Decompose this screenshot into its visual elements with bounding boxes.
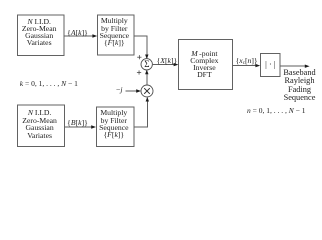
label: IDFT box line 2 <box>190 58 218 66</box>
summer sigma symbol <box>144 61 149 69</box>
annotation: k index range <box>20 80 78 88</box>
label: box1 line 3 <box>25 32 53 40</box>
label: IDFT box line 1 <box>191 51 217 59</box>
wire: arrow -j into multiplier <box>125 90 137 92</box>
label: box4 line 3 <box>99 124 128 132</box>
label: box3 line 2 <box>22 117 57 125</box>
gain label: -j <box>116 87 122 95</box>
plus sign upper-left of summer <box>137 55 141 59</box>
wire: output arrow from magnitude box <box>280 65 305 67</box>
label: box1 line 4 <box>27 39 52 47</box>
label: box2 line 3 <box>100 32 129 40</box>
label: box4 line 4 <box>103 131 124 139</box>
label: box2 line 2 <box>101 25 127 33</box>
box: magnitude |.| <box>261 54 281 77</box>
label: box4 line 2 <box>101 117 127 125</box>
label: box2 line 1 <box>101 18 128 26</box>
node label: {xc[n]} <box>236 57 258 65</box>
output label line 2 <box>285 78 315 86</box>
label: box3 line 1 <box>28 109 52 117</box>
output label line 3 <box>288 86 311 94</box>
multiplier circle with X <box>141 85 153 97</box>
wire: bottom multiplier box to multiplier circle (right then up) <box>134 101 148 127</box>
label: box3 line 3 <box>26 124 54 132</box>
label: box3 line 4 <box>27 132 52 140</box>
label: IDFT box line 3 <box>193 65 216 73</box>
box: bottom N I.I.D. Gaussian variates source <box>18 105 65 147</box>
label: box1 line 1 <box>27 18 51 26</box>
label: box1 line 2 <box>22 25 57 33</box>
summer circle with sigma <box>141 59 152 70</box>
box: top N I.I.D. Gaussian variates source <box>18 15 64 55</box>
label: box4 line 1 <box>100 109 127 117</box>
wire: arrow {A[k]} top source to top multiplier <box>64 35 93 37</box>
label: box2 line 4 <box>104 39 125 47</box>
wire: arrow {xc[n]} IDFT box to magnitude box <box>233 65 257 67</box>
box: M-point Complex Inverse DFT <box>179 40 233 90</box>
node label: {B[k]} <box>67 119 88 127</box>
wire: arrow {X[k]} summer to IDFT box <box>152 64 175 66</box>
output label line 1 <box>283 69 315 77</box>
node label: {X[k]} <box>157 57 178 65</box>
label: IDFT box line 4 <box>197 72 212 80</box>
box: bottom Multiply by Filter Sequence <box>96 107 134 147</box>
node label: {A[k]} <box>67 29 88 37</box>
box: top Multiply by Filter Sequence <box>98 15 135 55</box>
wire: arrow {B[k]} bottom source to bottom multiplier <box>65 126 93 128</box>
wire: top multiplier box to summer (right then down) <box>134 36 147 55</box>
output label line 4 <box>284 94 316 102</box>
annotation: n index range <box>247 107 305 115</box>
plus sign lower-left of summer <box>137 70 141 74</box>
label: magnitude box <box>265 61 275 69</box>
wire: multiplier circle up to summer <box>146 74 148 86</box>
